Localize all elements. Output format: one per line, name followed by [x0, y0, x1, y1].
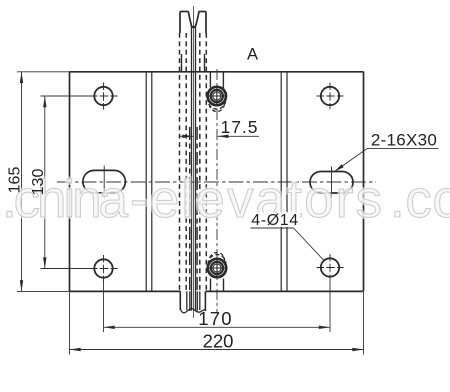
svg-text:165: 165	[7, 167, 24, 194]
svg-text:17.5: 17.5	[220, 117, 258, 137]
plate outline 220x165	[70, 72, 364, 292]
center line: horizontal plate axis	[57, 181, 376, 183]
rope hitch housing top with V-groove	[180, 12, 206, 34]
dimension 130: extension + dim line	[41, 96, 91, 269]
bend lines left flange	[145, 72, 147, 292]
hole top-right (4-die14) with center mark	[317, 83, 344, 110]
leader for 4-die14 label	[251, 228, 325, 261]
arrowheads of dimension and leader lines	[20, 72, 364, 351]
clamp bolt bottom (circles + lug lines)	[207, 253, 227, 292]
center line: clamp bolts vertical axis	[216, 69, 218, 312]
rope (solid pair of lines)	[191, 26, 193, 311]
dimension 220: extension + dim line	[70, 292, 364, 355]
dimension 165: extension + dim line	[17, 72, 70, 292]
hole top-left (4-die14) with center mark	[90, 83, 118, 110]
slot right (2-16X30) with center mark	[310, 167, 353, 198]
svg-text:A: A	[247, 46, 258, 64]
bend lines right flange	[280, 72, 282, 292]
svg-text:130: 130	[30, 169, 47, 196]
leader for 2-16X30 label	[335, 149, 439, 172]
clamp bolt top (circles + lug lines)	[207, 72, 227, 112]
watermark text .china-elevators.co	[2, 170, 450, 229]
svg-text:.co: .co	[390, 170, 450, 229]
hidden edges of hitch housing (dashed)	[180, 33, 207, 290]
dimension 170: extension + dim line	[104, 277, 331, 332]
hole bottom-right (4-die14) with center mark	[317, 254, 344, 281]
svg-text:4-Ø14: 4-Ø14	[251, 212, 298, 229]
hidden wedge edges (dashed)	[190, 127, 197, 290]
hitch part below plate with break line	[180, 291, 205, 312]
hole bottom-left (4-die14) with center mark	[90, 255, 118, 282]
dimension 17.5: dim lines	[179, 135, 259, 137]
shackle sides above plate edge	[181, 54, 183, 72]
svg-text:220: 220	[203, 331, 234, 352]
svg-text:170: 170	[198, 308, 232, 329]
svg-text:2-16X30: 2-16X30	[371, 131, 437, 150]
center line: rope hitch vertical axis	[193, 6, 195, 318]
label: hole callout 4-die14 with mask	[249, 213, 300, 228]
slot left (2-16X30) with center mark	[83, 166, 126, 198]
